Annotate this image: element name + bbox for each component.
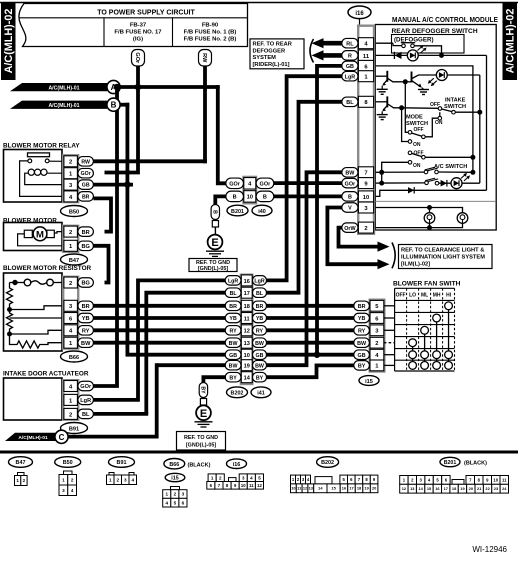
svg-text:BLOWER MOTOR RELAY: BLOWER MOTOR RELAY (3, 143, 80, 150)
svg-text:2: 2 (69, 412, 72, 418)
wire GOr row inside module (A/C sw, diode, LED) (374, 178, 451, 186)
wire BW resistor to middle bank row 13 (93, 341, 226, 345)
svg-text:LgR: LgR (80, 398, 91, 404)
inline connector body B201/i40 (244, 177, 257, 203)
wire GOr vertical from fuse to wire A (136, 66, 140, 87)
svg-text:5: 5 (174, 500, 177, 505)
transistor Q2 (405, 72, 436, 88)
resistor pin 2 BG (64, 277, 94, 288)
wire BW middle bank row 13 to fan switch BW 2 (266, 341, 354, 345)
wire BL vertical x146.3 to middle bank row 17 (146, 293, 226, 414)
svg-text:BW: BW (255, 363, 264, 369)
svg-text:B: B (348, 195, 352, 201)
motor connector body B47 (63, 226, 78, 252)
connector arrow B from A/C(MLH)-01 (10, 98, 120, 111)
wire BG motor to resistor (93, 246, 108, 283)
actuator pin 4 GOr (64, 381, 94, 392)
intake switch (402, 98, 480, 114)
junction on wire A at x117 (114, 84, 121, 91)
actuator pin 2 BL (64, 408, 94, 419)
actuator connector body B91 (63, 380, 78, 420)
svg-text:BW: BW (357, 341, 367, 347)
svg-text:12: 12 (244, 329, 250, 335)
svg-text:BW: BW (229, 363, 238, 369)
wire RY resistor to middle bank row 12 (93, 328, 226, 332)
fan switch pin YB 6 (354, 313, 384, 324)
svg-text:RY: RY (256, 329, 264, 335)
svg-text:SWITCH: SWITCH (406, 121, 428, 127)
wire RY middle bank row 12 to fan switch RY 3 (266, 328, 354, 332)
svg-text:B: B (111, 101, 117, 110)
svg-text:B: B (233, 195, 237, 201)
illumination bulb 2 (457, 213, 468, 224)
svg-text:18: 18 (244, 304, 250, 310)
svg-text:SYSTEM: SYSTEM (253, 55, 277, 61)
transistor Q1 (374, 71, 406, 86)
svg-text:BL: BL (82, 412, 90, 418)
wire label RW (fuse output) (199, 50, 212, 67)
wire C to row 19 riser (68, 363, 157, 436)
i16 bank connector body (358, 26, 374, 234)
svg-text:i15: i15 (171, 476, 179, 482)
wire B vertical x127.4 down to middle bank GB row (127, 103, 226, 355)
actuator pin 1 LgR (64, 394, 94, 405)
svg-text:B91: B91 (117, 460, 127, 466)
motor pin 2 BR (64, 226, 94, 237)
svg-text:V: V (348, 206, 352, 212)
svg-text:BR: BR (82, 304, 90, 310)
ground E symbol (bank BY) (195, 405, 213, 427)
transistor Q3 (374, 96, 402, 111)
bottom border rule (0, 451, 518, 454)
svg-text:3: 3 (62, 488, 65, 493)
blower motor resistor (3, 265, 92, 351)
bottom connector B91 pinout (107, 457, 137, 485)
bank row YB 11 (225, 313, 266, 324)
svg-text:A/C(MLH)-02: A/C(MLH)-02 (505, 9, 517, 74)
bank row BW 13 (225, 337, 266, 348)
svg-text:YB: YB (256, 316, 264, 322)
resistor element network (7, 283, 64, 349)
svg-text:3: 3 (182, 492, 185, 497)
svg-text:GOr: GOr (345, 181, 356, 187)
junction A/C OFF row / rail (470, 155, 475, 160)
wire fan pin 1 to table (384, 364, 395, 366)
svg-text:WI-12946: WI-12946 (472, 545, 507, 554)
bottom connector B66 (BLACK) / i15 pinout (163, 459, 211, 508)
svg-text:RL: RL (346, 41, 354, 47)
svg-text:BR: BR (229, 304, 237, 310)
relay pin 3 GB (64, 179, 94, 190)
resistor pin 4 RY (64, 325, 94, 336)
svg-text:MODE: MODE (406, 115, 423, 121)
svg-text:A/C(MLH)-01: A/C(MLH)-01 (48, 103, 79, 109)
connector id oval B202 (227, 387, 248, 398)
svg-text:B201: B201 (231, 209, 244, 215)
power supply box TO POWER SUPPLY CIRCUIT (19, 4, 248, 47)
page tab left A/C(MLH)-02 (1, 2, 16, 80)
svg-text:BW: BW (345, 171, 355, 177)
wire BY row 14 to ground (203, 377, 226, 382)
wire GB inside module to right rail x472.9 (374, 66, 473, 172)
svg-text:17: 17 (444, 486, 448, 491)
relay connector body B50 (63, 155, 78, 202)
manual A/C control module box (375, 17, 498, 230)
junction BW row / rail (470, 170, 475, 175)
svg-text:REF. TO REAR: REF. TO REAR (253, 42, 292, 48)
svg-text:INTAKE DOOR ACTUATEOR: INTAKE DOOR ACTUATEOR (3, 371, 89, 378)
wire BW row inside module (374, 167, 473, 174)
svg-text:i16: i16 (233, 462, 241, 468)
connector arrow A from A/C(MLH)-01 (10, 80, 120, 93)
svg-text:REF. TO CLEARANCE LIGHT &: REF. TO CLEARANCE LIGHT & (401, 248, 484, 254)
rear defogger switch box (DEFOGGER) (392, 28, 478, 53)
resistor pin 1 BW (64, 337, 94, 348)
fan switch pin GB 4 (354, 349, 384, 360)
svg-text:RW: RW (81, 159, 90, 165)
svg-text:BR: BR (82, 194, 90, 200)
svg-text:BY: BY (358, 364, 366, 370)
junction on wire A at x138 (135, 84, 142, 91)
svg-text:LgR: LgR (254, 279, 264, 285)
wire BR resistor to middle bank row 18 (93, 304, 226, 308)
page tab right A/C(MLH)-02 (503, 2, 518, 80)
wire BY middle bank row 14 jog to fan switch BY 1 (266, 365, 354, 377)
wire fan pin 6 to table (384, 317, 395, 319)
wire BR middle bank row 18 to fan switch BR 5 (266, 304, 354, 308)
wire V row to bulbs (374, 205, 463, 213)
wire B horizontal (120, 103, 129, 107)
svg-text:GOr: GOr (81, 171, 91, 177)
motor pin 1 BG (64, 240, 94, 251)
svg-text:2: 2 (69, 230, 72, 236)
svg-text:BY: BY (200, 386, 206, 394)
junction BW row x381.7 (379, 170, 384, 175)
svg-text:GB: GB (82, 183, 90, 189)
svg-text:1: 1 (62, 477, 65, 482)
svg-text:i40: i40 (258, 209, 266, 215)
svg-text:B: B (263, 195, 267, 201)
svg-text:B47: B47 (16, 460, 26, 466)
svg-text:17: 17 (349, 486, 353, 491)
top border rule (0, 2, 518, 4)
svg-text:BLOWER FAN SWITH: BLOWER FAN SWITH (393, 281, 461, 288)
wire intake LED to rail x479.8 (447, 74, 480, 76)
junction intake switch / rail (477, 110, 482, 115)
wire B inline to module pin 10 (274, 194, 342, 198)
svg-text:ML: ML (421, 293, 428, 299)
blower motor relay (3, 143, 80, 203)
defogger switch contacts (374, 43, 444, 58)
svg-text:11: 11 (244, 316, 250, 322)
svg-text:2: 2 (69, 281, 72, 287)
svg-text:BY: BY (256, 375, 264, 381)
svg-text:10: 10 (363, 195, 369, 201)
ground wire label B vertical (211, 205, 219, 220)
svg-text:A/C(MLH)-01: A/C(MLH)-01 (18, 435, 48, 441)
svg-text:10: 10 (247, 195, 253, 201)
fan switch pin BR 5 (354, 300, 384, 311)
svg-text:17: 17 (244, 291, 250, 297)
ground wire label BY vertical (199, 383, 207, 398)
svg-text:GOr: GOr (80, 384, 92, 390)
svg-text:[GND(L)-05]: [GND(L)-05] (186, 443, 216, 449)
bottom connector i16 pinout (207, 459, 264, 489)
svg-text:FB-37: FB-37 (130, 23, 147, 29)
svg-text:11: 11 (502, 477, 507, 482)
svg-text:BL: BL (230, 291, 238, 297)
svg-text:B47: B47 (69, 258, 79, 264)
wire IG vertical x117 to intake door actuator GOr (64, 87, 117, 386)
svg-text:REF. TO GND: REF. TO GND (184, 435, 218, 441)
svg-text:SWITCH: SWITCH (444, 104, 466, 110)
relay pin 1 GOr (64, 168, 94, 179)
svg-text:INTAKE: INTAKE (445, 98, 466, 104)
svg-text:A/C(MLH)-02: A/C(MLH)-02 (3, 9, 15, 74)
svg-text:2: 2 (23, 478, 26, 483)
connector id oval B201 (227, 205, 248, 216)
ground terminal stub (200, 399, 206, 406)
svg-text:BL: BL (346, 100, 354, 106)
svg-text:F/B FUSE No. 2 (B): F/B FUSE No. 2 (B) (184, 37, 237, 43)
ground (Q1 emitter) (377, 86, 388, 95)
svg-text:2: 2 (116, 477, 119, 482)
connector id oval i41 (251, 387, 271, 398)
svg-text:LgR: LgR (345, 74, 356, 80)
wire YB middle bank row 11 to fan switch YB 6 (266, 316, 354, 320)
svg-text:1: 1 (109, 477, 112, 482)
ref to rear defogger system box (250, 39, 304, 69)
svg-text:YB: YB (358, 316, 366, 322)
fan switch pin RY 3 (354, 325, 384, 336)
bank row RY 12 (225, 325, 266, 336)
svg-text:ON: ON (413, 142, 421, 148)
rail right x486.5 (R row to diode row) (486, 55, 488, 190)
svg-text:RY: RY (358, 328, 366, 334)
svg-text:19: 19 (244, 364, 250, 370)
svg-text:E: E (200, 408, 207, 420)
svg-text:BR: BR (82, 230, 90, 236)
ground (Q3 emitter) (377, 111, 388, 119)
wire LgR riser x286.6 module pin 1 to bank row 16 (266, 76, 342, 280)
wire RW vertical from fuse to relay row (203, 66, 207, 163)
svg-text:BLOWER MOTOR RESISTOR: BLOWER MOTOR RESISTOR (3, 265, 92, 272)
junction wire B with relay GB row (124, 181, 131, 188)
wire BW riser x306.5 module pin 7 to bank row 19 (266, 172, 342, 365)
module pin LgR 1 (342, 71, 374, 82)
wire YB resistor to middle bank row 11 (93, 316, 226, 320)
wire fan pin 4 to table (384, 354, 395, 356)
wire fan pin 5 to table (384, 305, 395, 307)
svg-text:B66: B66 (69, 355, 79, 361)
rail x479.8 (479, 75, 481, 183)
wire V to clearance light arrow (327, 208, 377, 265)
module pin RL 4 (342, 38, 374, 49)
bottom connector B50 pinout (55, 457, 81, 496)
wire GOr inline to module pin 9 (274, 181, 342, 185)
wire BL actuator pin 2 (93, 412, 148, 416)
svg-text:i16: i16 (355, 11, 364, 17)
fan switch contact links (413, 306, 449, 366)
connector id oval B47 (61, 254, 88, 265)
svg-text:1: 1 (165, 492, 168, 497)
svg-text:BG: BG (82, 244, 90, 250)
page arrow (V to illumination system) (378, 259, 390, 269)
svg-text:HI: HI (446, 293, 452, 299)
bracket before defogger ref box (310, 39, 314, 63)
svg-text:4: 4 (131, 477, 134, 482)
svg-text:BW: BW (229, 341, 238, 347)
svg-text:LgR: LgR (228, 279, 238, 285)
wire GB riser x317 module pin 6 to GB bus (317, 66, 342, 355)
junction GOr row x381.7 (379, 181, 384, 186)
svg-text:MH: MH (433, 293, 441, 299)
svg-text:BR: BR (256, 304, 264, 310)
svg-text:B66: B66 (169, 462, 179, 468)
svg-text:A/C(MLH)-01: A/C(MLH)-01 (48, 86, 79, 92)
bank row BR 18 (225, 300, 266, 311)
wire LgR vertical x138 actuator to middle bank row 16 (93, 280, 226, 400)
svg-text:BL: BL (256, 291, 264, 297)
wire RW horizontal to relay pin 2 (93, 159, 206, 163)
svg-text:LO: LO (409, 293, 416, 299)
svg-text:ON: ON (435, 120, 443, 126)
module pin GOr 9 (342, 178, 374, 189)
bottom connector B202 pinout (291, 457, 378, 493)
diode on R row (374, 52, 487, 59)
module pin R 11 (342, 50, 374, 61)
svg-text:1: 1 (16, 478, 19, 483)
wire OrW row from bulbs (374, 223, 463, 230)
page arrow (OrW to illumination system) (378, 242, 390, 252)
connector id oval i40 (252, 205, 272, 216)
inline row GOr 4 GOr (226, 178, 274, 190)
connector arrow C from A/C(MLH)-01 (5, 430, 68, 443)
wire BR relay to motor (93, 198, 111, 231)
svg-text:C: C (59, 433, 65, 442)
intake door actuator (3, 371, 89, 421)
blower motor (3, 218, 64, 251)
svg-text:BY: BY (229, 375, 237, 381)
svg-text:10: 10 (244, 353, 250, 359)
svg-text:i15: i15 (365, 379, 373, 385)
relay coil (25, 169, 64, 185)
svg-text:14: 14 (244, 376, 251, 382)
svg-text:13: 13 (244, 341, 250, 347)
resistor pin 6 YB (64, 313, 94, 324)
svg-text:BG: BG (82, 281, 90, 287)
svg-text:RY: RY (230, 329, 238, 335)
wire A horizontal (IG feed) (120, 85, 220, 89)
svg-text:GB: GB (256, 353, 264, 359)
figure number WI-12946 (472, 545, 507, 554)
bank row BL 17 (225, 287, 266, 298)
svg-text:(BLACK): (BLACK) (464, 461, 487, 467)
resistor connector body B66 (63, 277, 78, 349)
module pin GB 6 (342, 60, 374, 71)
fuse FB-37 F/B FUSE NO. 17 (IG) (114, 23, 162, 43)
resistor thermal fuse contacts (10, 279, 64, 286)
junction Q3 collector (399, 105, 404, 110)
svg-text:BW: BW (255, 341, 264, 347)
svg-text:i41: i41 (257, 391, 265, 397)
svg-text:10: 10 (291, 486, 295, 491)
svg-text:BW: BW (81, 341, 91, 347)
svg-text:[ILM(L)-02]: [ILM(L)-02] (401, 262, 430, 268)
wire B to ground drop (215, 196, 226, 204)
svg-text:11: 11 (249, 483, 254, 488)
svg-text:ILLUMINATION LIGHT SYSTEM: ILLUMINATION LIGHT SYSTEM (401, 255, 485, 261)
svg-text:2: 2 (364, 226, 367, 232)
module pin OrW 2 (342, 222, 374, 233)
bank row LgR 16 (225, 275, 266, 286)
wire OrW to clearance light arrow (339, 228, 378, 247)
svg-text:2: 2 (69, 160, 72, 166)
LED (A/C indicator) (451, 173, 480, 189)
svg-text:10: 10 (493, 477, 498, 482)
bottom connector B201 (BLACK) pinout (400, 457, 509, 493)
wire fan pin 2 to table (dashed) (384, 342, 395, 344)
junction GB riser with GB row (314, 351, 321, 358)
svg-text:E: E (211, 237, 218, 249)
wire GB middle bank row 10 to fan switch (266, 353, 354, 357)
LED (defogger indicator) (407, 45, 426, 61)
wire GOr vertical x138 to relay pin 1 (105, 87, 139, 173)
svg-text:MANUAL A/C CONTROL MODULE: MANUAL A/C CONTROL MODULE (392, 17, 498, 24)
fan switch pin BW 2 (354, 337, 384, 348)
svg-text:2: 2 (174, 492, 177, 497)
ground terminal stub (B) (212, 221, 218, 235)
connector id oval i16 (module) (348, 6, 371, 26)
connector id oval i15 (359, 376, 379, 386)
svg-text:4: 4 (165, 500, 168, 505)
ref to clearance light box (399, 245, 493, 269)
ground (Q2 emitter) (418, 88, 429, 95)
wire fan pin 3 to table (384, 329, 395, 331)
svg-text:OFF: OFF (414, 127, 424, 133)
fuse FB-90 F/B FUSE No. 1 (B) / No. 2 (B) (184, 23, 237, 43)
bank row BY 14 (225, 372, 266, 383)
svg-text:11: 11 (363, 54, 370, 60)
svg-text:16: 16 (244, 279, 250, 285)
ref to gnd box (upper) (189, 259, 237, 273)
svg-text:6: 6 (182, 500, 185, 505)
page arrow wire RL (to rear defogger) (312, 38, 342, 48)
svg-text:10: 10 (241, 483, 246, 488)
svg-text:GOr: GOr (229, 182, 241, 188)
svg-text:GB: GB (346, 64, 354, 70)
svg-text:4: 4 (71, 488, 74, 493)
svg-text:12: 12 (257, 483, 262, 488)
svg-text:(IG): (IG) (133, 37, 143, 43)
svg-text:DEFOGGER: DEFOGGER (253, 48, 286, 54)
module pin BL 8 (342, 96, 374, 107)
wire B row jog and diode row (374, 187, 487, 196)
svg-text:B201: B201 (444, 460, 457, 466)
wire GB relay row segment (93, 183, 133, 187)
svg-text:YB: YB (229, 316, 237, 322)
svg-text:3: 3 (124, 477, 127, 482)
wire BW row 19 to arrow C riser (157, 363, 226, 367)
resistor pin 3 BR (64, 300, 94, 311)
svg-text:R: R (348, 54, 352, 60)
svg-text:FB-90: FB-90 (202, 23, 219, 29)
svg-text:[GND(L)-05]: [GND(L)-05] (198, 266, 228, 272)
svg-text:M: M (36, 229, 44, 240)
svg-text:GB: GB (358, 353, 366, 359)
svg-text:OFF: OFF (396, 293, 406, 299)
bank row GB 10 (225, 349, 266, 360)
